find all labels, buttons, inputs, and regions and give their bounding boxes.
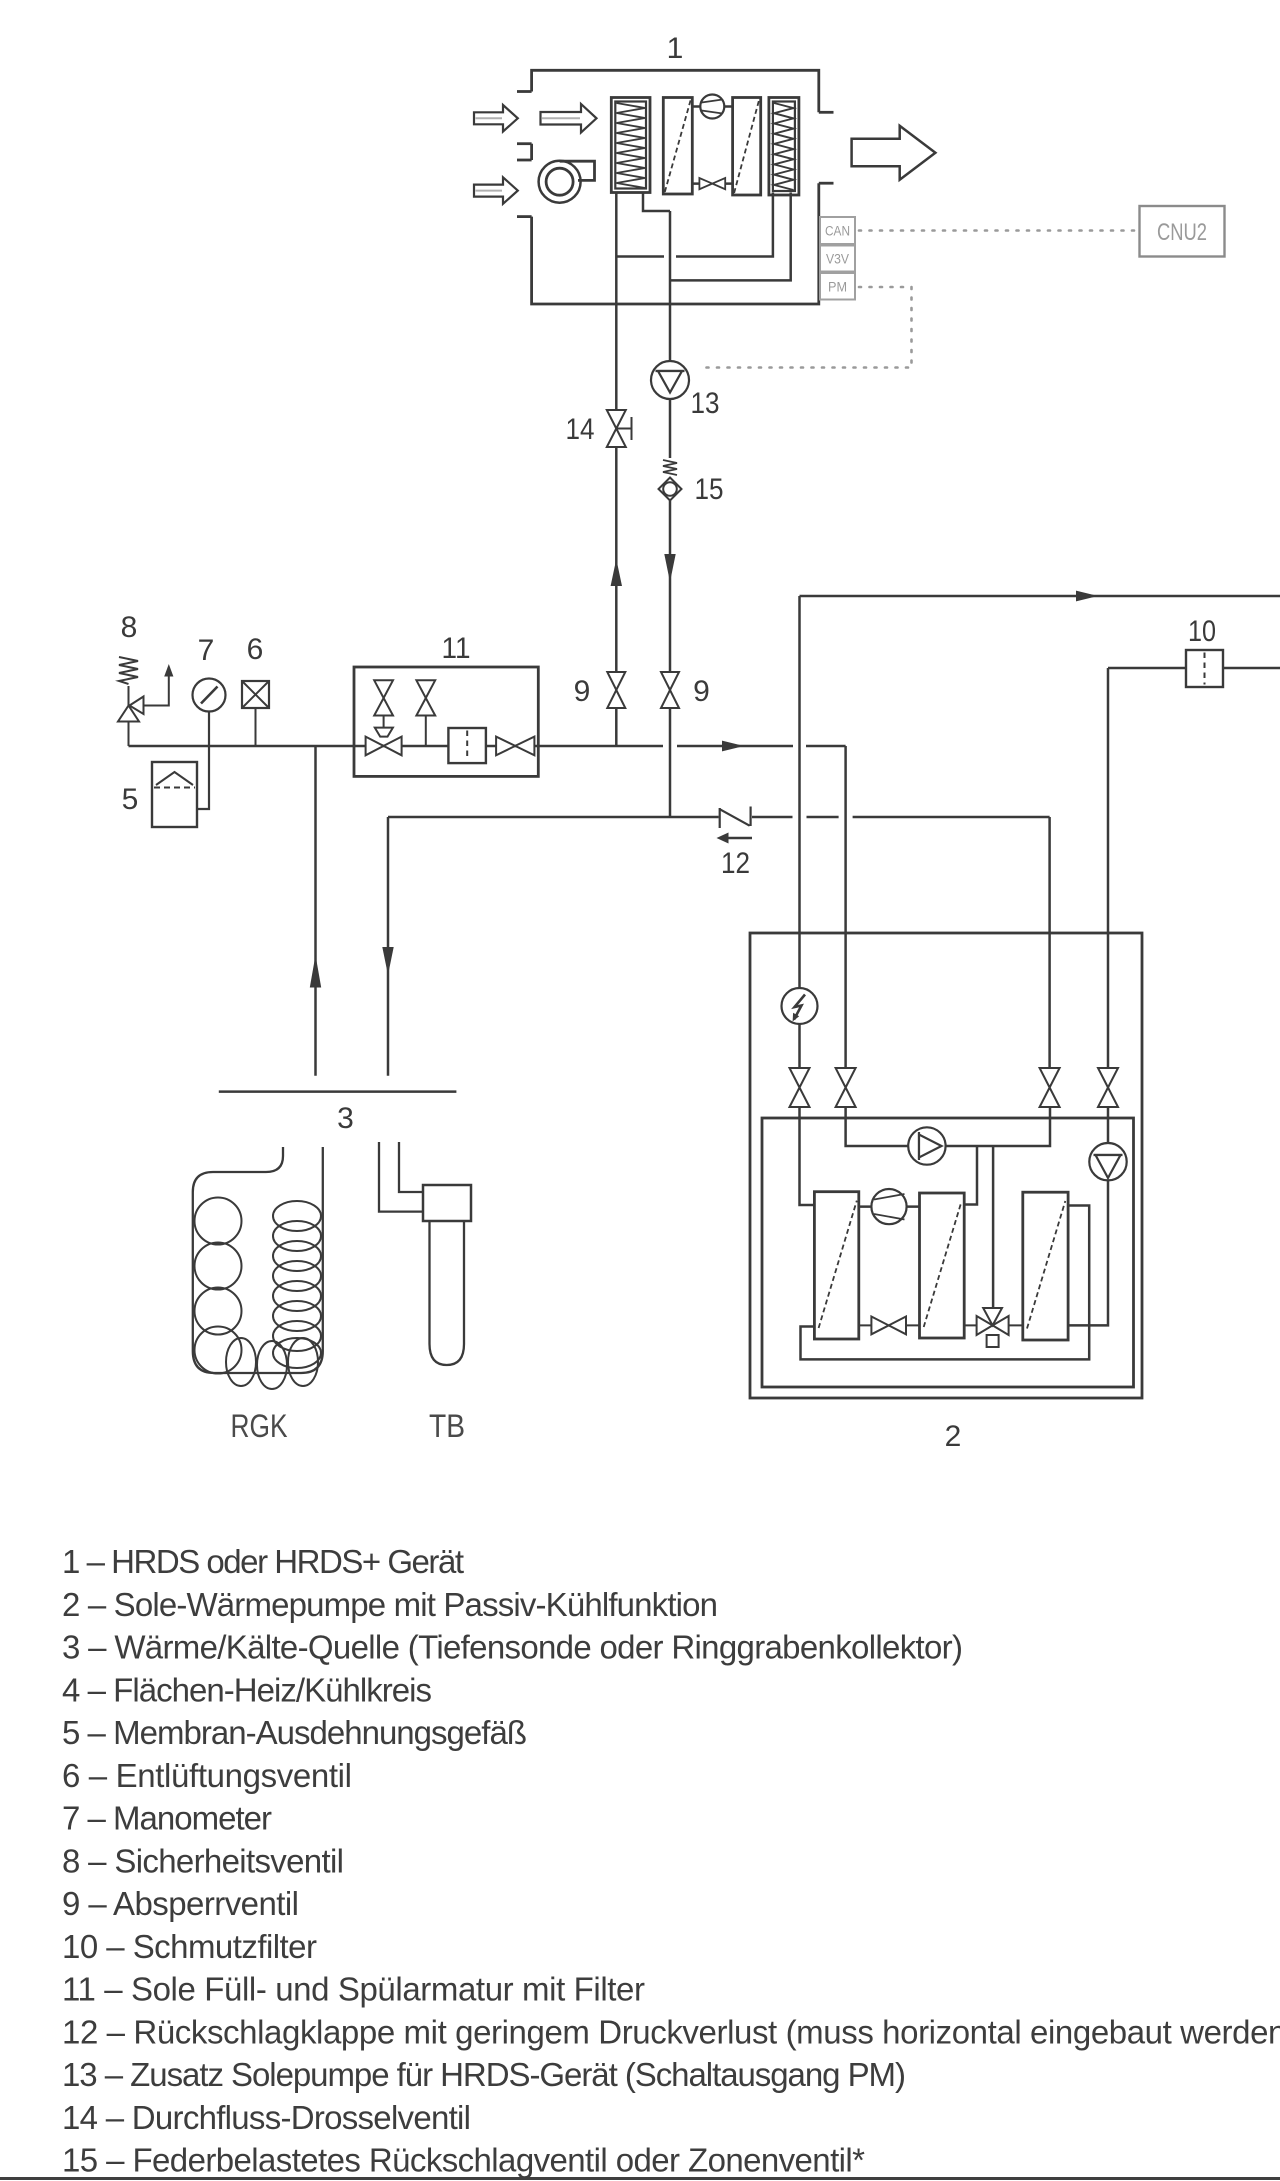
three-way valve on header (unit 11) xyxy=(366,737,402,756)
ring trench collector RGK outline xyxy=(193,1147,323,1373)
evaporator heat exchanger HX1 xyxy=(814,1192,858,1339)
supply air arrow inside unit xyxy=(541,104,597,133)
check valve 12 flow arrow (left) xyxy=(717,833,753,844)
svg-text:4 – Flächen-Heiz/Kühlkreis: 4 – Flächen-Heiz/Kühlkreis xyxy=(62,1671,432,1708)
safety valve 8 xyxy=(118,657,169,746)
PM dotted control wire to pump 13 xyxy=(699,287,912,368)
svg-text:1 – HRDS oder HRDS+ Gerät: 1 – HRDS oder HRDS+ Gerät xyxy=(62,1543,464,1580)
passive-cooling heat exchanger HX3 xyxy=(1023,1192,1068,1340)
CAN terminal box xyxy=(820,217,855,244)
pipe: heating circuit supply y=596 to right edge xyxy=(800,595,1280,598)
pipe: coil2 left tap across to supply line xyxy=(616,193,773,257)
svg-text:6: 6 xyxy=(247,633,264,666)
pipe: drop x=993.1 to three-way valve xyxy=(992,1146,995,1308)
V3V terminal box xyxy=(820,246,855,272)
svg-text:10: 10 xyxy=(1188,615,1216,648)
pipe: vertical x=799.5 from heating supply down into heat pump xyxy=(798,596,801,1068)
three-way switching valve (heat pump) xyxy=(964,1308,1023,1347)
heat pump unit 2 enclosure xyxy=(750,933,1142,1398)
brine fill-flush unit 11 box xyxy=(354,667,538,776)
spring-loaded check valve 15 xyxy=(659,460,682,501)
svg-text:TB: TB xyxy=(429,1408,465,1444)
manometer 7 xyxy=(193,679,226,810)
svg-text:6 – Entlüftungsventil: 6 – Entlüftungsventil xyxy=(62,1757,352,1794)
refrigerant expansion valve (bottom bowtie) xyxy=(859,1317,920,1335)
throttle valve 14 xyxy=(607,410,632,447)
RGK coil bottom row xyxy=(226,1338,318,1389)
heat exchanger B (unit 1) xyxy=(733,98,761,196)
svg-text:1: 1 xyxy=(667,32,684,65)
svg-text:PM: PM xyxy=(828,280,847,295)
svg-text:8 – Sicherheitsventil: 8 – Sicherheitsventil xyxy=(62,1842,344,1879)
outside air inlet arrow xyxy=(474,105,518,132)
vent valve 6 xyxy=(242,681,269,746)
svg-text:11: 11 xyxy=(442,632,471,665)
svg-text:3: 3 xyxy=(337,1102,354,1135)
shut-off valve 9 (right) xyxy=(661,672,679,708)
pipe: return line inside unit xyxy=(669,211,672,304)
fill valve (unit 11, left hourglass) xyxy=(374,680,393,727)
heat pump isolation valve (heating out, x=1049.6) xyxy=(1040,1068,1060,1107)
main distribution header pipe y=746 xyxy=(129,745,846,748)
svg-text:11 – Sole Füll- und Spülarmatu: 11 – Sole Füll- und Spülarmatur mit Filt… xyxy=(62,1971,645,2008)
svg-text:13: 13 xyxy=(691,387,720,420)
svg-text:3 – Wärme/Kälte-Quelle (Tiefen: 3 – Wärme/Kälte-Quelle (Tiefensonde oder… xyxy=(62,1629,963,1666)
shut-off valve at unit 11 outlet xyxy=(496,737,534,756)
flow arrow down on return line xyxy=(664,554,675,582)
svg-text:2: 2 xyxy=(945,1420,962,1453)
heat pump isolation valve (brine in, x=799.5) xyxy=(790,1068,810,1107)
heat exchanger A (unit 1) xyxy=(663,98,692,195)
heating coil (left heat exchanger coil block) xyxy=(611,98,650,193)
svg-text:RGK: RGK xyxy=(231,1408,288,1444)
svg-text:10 – Schmutzfilter: 10 – Schmutzfilter xyxy=(62,1928,317,1965)
svg-text:5 – Membran-Ausdehnungsgefäß: 5 – Membran-Ausdehnungsgefäß xyxy=(62,1714,527,1751)
filter inside unit 11 xyxy=(448,728,486,763)
ground line of heat/cold source 3 xyxy=(219,1090,457,1093)
brine circulation pump (heat pump) xyxy=(908,1127,945,1164)
svg-text:7 – Manometer: 7 – Manometer xyxy=(62,1800,272,1837)
additional brine pump 13 xyxy=(651,361,689,399)
check valve 12 xyxy=(720,807,751,829)
flush valve (unit 11, second hourglass) xyxy=(416,680,435,746)
flow arrow up on source supply xyxy=(310,955,321,988)
svg-text:12: 12 xyxy=(721,847,750,880)
svg-text:9: 9 xyxy=(574,675,591,708)
pipe: coil1 down-line upper segment (inside unit) xyxy=(615,193,618,305)
svg-text:5: 5 xyxy=(122,783,139,816)
svg-text:13 – Zusatz Solepumpe für HRDS: 13 – Zusatz Solepumpe für HRDS-Gerät (Sc… xyxy=(62,2056,906,2093)
flow arrow right on heating supply xyxy=(1076,591,1098,602)
deep probe TB pipes xyxy=(379,1142,423,1212)
pipe: supply line x=616 from unit to main line xyxy=(615,304,618,746)
extract fan xyxy=(539,161,595,203)
funnel of three-way fill fitting (unit 11) xyxy=(375,728,393,737)
pipe: source supply vertical x=315.5 xyxy=(314,746,317,1076)
pipe: vertical x=1108 from filter line down into heat pump xyxy=(1107,668,1110,1068)
dirt filter 10 xyxy=(1186,650,1223,687)
supply air outlet arrow xyxy=(852,126,936,180)
circulation device circle (unit 1 top) xyxy=(692,95,732,119)
CAN bus dotted wire to CNU2 xyxy=(859,229,1136,232)
HRDS unit 1 enclosure xyxy=(517,70,834,304)
svg-text:8: 8 xyxy=(121,611,138,644)
pipe: heating circuit return with filter to right edge xyxy=(1108,667,1280,670)
flow arrow up on supply line xyxy=(611,559,622,586)
membrane expansion vessel 5 xyxy=(152,762,197,827)
deep probe TB head xyxy=(423,1185,471,1221)
svg-text:14 – Durchfluss-Drosselventil: 14 – Durchfluss-Drosselventil xyxy=(62,2099,471,2136)
pipe: brine in drop x=799.5 to evaporator xyxy=(800,1107,816,1205)
pipe: coil1 right tap to return line xyxy=(643,193,670,212)
CNU2 controller box xyxy=(1140,206,1225,257)
cooling coil (right heat exchanger coil block) xyxy=(769,98,799,196)
svg-text:CNU2: CNU2 xyxy=(1157,219,1207,246)
shut-off valve 9 (left) xyxy=(607,672,625,708)
svg-text:7: 7 xyxy=(198,634,215,667)
deep probe TB body xyxy=(430,1221,465,1365)
pipe: lower header y=817 with check valve branch xyxy=(388,816,1050,819)
svg-text:V3V: V3V xyxy=(826,252,849,267)
svg-text:9 – Absperrventil: 9 – Absperrventil xyxy=(62,1885,299,1922)
RGK coil left column xyxy=(195,1198,242,1374)
flow arrow down on source return xyxy=(382,947,393,975)
safety valve discharge arrow xyxy=(164,664,173,677)
RGK coil right column xyxy=(273,1201,321,1368)
flow arrow right on main header xyxy=(722,741,744,752)
pipe: coil2 right tap across to return line xyxy=(670,193,791,281)
pipe: return line x=670 from unit down to lower header xyxy=(669,304,672,817)
PM terminal box xyxy=(820,273,855,300)
svg-text:12 – Rückschlagklappe mit geri: 12 – Rückschlagklappe mit geringem Druck… xyxy=(62,2013,1280,2050)
pipe: evaporator bottom loop to HX3 top xyxy=(801,1206,1090,1360)
legend text block xyxy=(62,1543,1280,2179)
pipe: drop x=977 to condenser right top xyxy=(965,1146,977,1205)
svg-text:CAN: CAN xyxy=(825,224,850,239)
condenser heat exchanger HX2 xyxy=(920,1193,965,1338)
heat pump isolation valve (brine out, x=845.6) xyxy=(836,1068,856,1107)
svg-text:14: 14 xyxy=(566,413,595,446)
heating circulation pump (heat pump right) xyxy=(1068,1107,1127,1325)
electric supply symbol xyxy=(782,988,818,1024)
bottom separator line xyxy=(0,2177,1280,2180)
svg-text:9: 9 xyxy=(693,675,710,708)
pipe: brine out riser x=845.6 and pump header y=1146 xyxy=(846,1107,1050,1146)
heat pump inner module box xyxy=(762,1118,1134,1387)
exhaust air inlet arrow xyxy=(474,177,518,204)
svg-text:2 – Sole-Wärmepumpe mit Passiv: 2 – Sole-Wärmepumpe mit Passiv-Kühlfunkt… xyxy=(62,1586,718,1623)
expansion valve (unit 1 bottom bowtie) xyxy=(692,178,732,189)
svg-text:15 – Federbelastetes Rückschla: 15 – Federbelastetes Rückschlagventil od… xyxy=(62,2142,865,2179)
pipe: vertical x=1049.6 down into heat pump xyxy=(1048,817,1051,1068)
heat pump isolation valve (heating in, x=1108) xyxy=(1098,1068,1118,1107)
pipe: corner from main header down toward heat pump (x=845.6) xyxy=(844,746,847,1068)
compressor xyxy=(859,1189,920,1224)
svg-text:15: 15 xyxy=(695,473,724,506)
pipe: source return vertical x=388 xyxy=(387,817,390,1076)
